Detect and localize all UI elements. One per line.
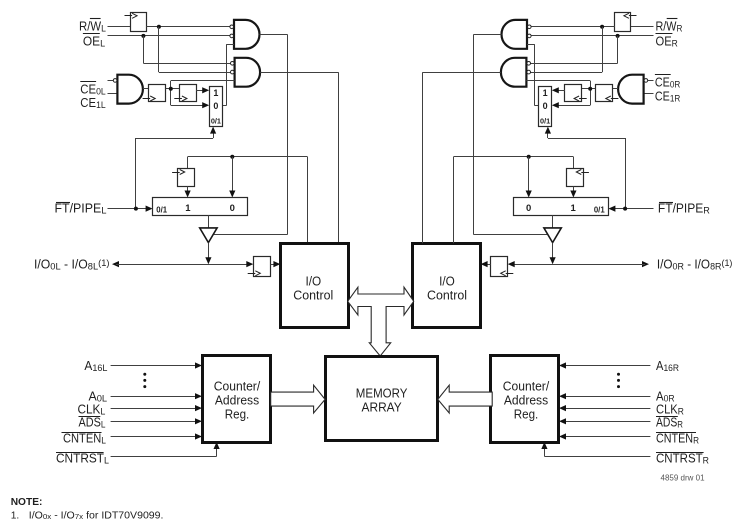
and-gate G3L (chip enable) [113,75,143,104]
node pipeline R junction [527,155,531,159]
wire B1R to I/O bus [550,243,556,265]
and-gate G1R [502,20,532,49]
wire U9 out to mux 1-input [570,186,576,197]
label CE1R [655,90,681,105]
wire flow-through to mux 0-input R [526,157,532,198]
text note 1 [11,510,164,521]
signal CNTENL [62,432,203,447]
flip-flop U4 (pipeline register) [172,169,194,187]
label CE1L [80,96,105,111]
node pipeline junction [230,155,234,159]
svg-text:FT/PIPER: FT/PIPER [658,202,710,217]
svg-text:0: 0 [543,101,548,111]
ellipsis right address [617,373,620,388]
block Counter/Address Reg left [203,356,271,443]
svg-text:I/O0x - I/O7x for IDT70V9099.: I/O0x - I/O7x for IDT70V9099. [29,510,164,521]
label OEL [83,34,105,50]
wire R/WR branch to G2R [531,27,603,73]
svg-text:FT/PIPEL: FT/PIPEL [55,202,107,217]
svg-text:R/WR: R/WR [656,20,683,35]
svg-text:CNTRSTR: CNTRSTR [656,452,709,467]
svg-text:1.: 1. [11,510,20,521]
node R/WL junction [157,25,161,29]
svg-text:Address: Address [215,392,260,407]
svg-text:R/WL: R/WL [79,20,106,35]
svg-text:Reg.: Reg. [514,407,539,422]
wire U3 out to mux 1-input [196,87,209,93]
svg-text:I/O0R - I/O8R(1): I/O0R - I/O8R(1) [657,257,733,272]
wire M2R out to buffer [552,215,554,228]
label FT/PIPEL [55,202,107,217]
wire U1 out to gate G1L [146,26,230,28]
wire G1L output to buffer enable [214,34,288,234]
svg-text:0/1: 0/1 [594,205,606,214]
svg-text:Counter/: Counter/ [503,378,550,393]
ellipsis left address [143,373,146,388]
svg-text:0: 0 [213,101,218,111]
svg-text:ARRAY: ARRAY [362,400,403,415]
wire G2R output to I/O control [422,72,500,243]
wire U7 to U8 [581,88,595,90]
svg-text:A16L: A16L [84,359,107,374]
svg-text:Control: Control [427,287,467,302]
wire G2R enable input [526,81,590,106]
node FT/PIPEL junction [134,207,138,211]
wire G1R output to buffer enable [474,34,548,234]
wire CE0L stub [108,80,114,82]
signal CNTRSTR [541,442,709,467]
wire G2L enable input [171,81,235,106]
wire B1L to I/O bus [205,243,211,265]
svg-text:4859 drw 01: 4859 drw 01 [661,474,706,483]
text drawing number [661,474,706,483]
svg-text:CNTENL: CNTENL [63,432,106,447]
signal A16R [559,359,679,374]
label R/WR [656,19,683,35]
label FT/PIPER [658,202,710,217]
svg-text:1: 1 [185,203,191,214]
block Memory Array [326,357,438,441]
flip-flop U8 (CE register 2) [565,85,587,102]
buffer B1R (output driver) [544,228,561,243]
wire G1L enable input [223,44,234,105]
svg-text:1: 1 [543,88,548,98]
wire FT/PIPER to mux M2R [608,206,653,212]
and-gate G2R [501,58,531,87]
wire I/O data to pipeline [188,157,308,244]
flip-flop U10 (input register) [491,257,514,277]
and-gate G2L [231,58,261,87]
bus arrow counter left to memory [271,385,325,413]
and-gate G1L [230,20,260,49]
wire I/O bus L [112,261,253,267]
svg-text:Counter/: Counter/ [214,378,261,393]
wire OER to gate G1R [531,35,654,37]
flip-flop U6 (R/WR register) [615,13,637,32]
signal CNTENR [559,432,699,447]
wire U2 to U3 [166,88,180,90]
wire I/O bus R [508,261,649,267]
svg-text:OEL: OEL [83,35,105,50]
signal A16L [84,359,202,374]
label I/O0L - I/O8L [34,257,110,272]
mux M2R (FT/PIPE select) [514,198,609,216]
signal A0R [559,389,675,404]
svg-text:ADSL: ADSL [79,416,106,431]
wire OEL branch to G2L [143,36,230,64]
wire U5 to I/O control [270,261,280,267]
wire U6 out to gate G1R [531,26,615,28]
mux M2L (FT/PIPE select) [153,198,248,216]
node CER junction [588,87,592,91]
svg-text:Reg.: Reg. [225,407,250,422]
flip-flop U9 (pipeline register) [567,169,589,187]
svg-text:CE1R: CE1R [655,90,681,105]
wire M1R select from FT/PIPER [545,127,626,209]
svg-text:Control: Control [293,287,333,302]
bus arrow I/O controls to memory array [348,287,414,356]
mux M1L (CE path select) [210,87,223,127]
svg-text:ADSR: ADSR [656,416,683,431]
wire M1L select from FT/PIPEL [136,127,217,209]
label CE0L [80,82,105,98]
block Counter/Address Reg right [491,356,559,443]
wire M2L out to buffer [208,215,210,228]
flip-flop U5 (input register) [248,257,271,277]
signal ADSL [79,416,203,431]
svg-text:I/O0L - I/O8L(1): I/O0L - I/O8L(1) [34,257,110,272]
svg-text:A16R: A16R [656,359,679,374]
bus arrow counter right to memory [438,385,492,413]
wire CER flow-through to mux 0-input [552,102,590,108]
svg-text:Address: Address [504,392,549,407]
signal ADSR [559,416,683,431]
svg-text:CNTRSTL: CNTRSTL [56,452,109,467]
wire FT/PIPEL to mux M2L [108,206,153,212]
signal A0L [89,389,203,404]
wire CE1L stub [108,93,118,95]
svg-text:MEMORY: MEMORY [356,385,408,400]
wire OER branch to G2R [531,36,618,64]
node R/WR junction [600,25,604,29]
wire G2L output to I/O control [260,72,338,243]
svg-text:1: 1 [213,88,218,98]
wire U4 out to mux 1-input [185,186,191,197]
label OER [656,34,678,50]
svg-text:1: 1 [570,203,576,214]
flip-flop U3 (CE register 2) [174,85,196,102]
text NOTE heading [11,497,43,508]
wire flow-through to mux 0-input [229,157,235,198]
label CE0R [655,75,681,91]
mux M1R (CE path select) [539,87,552,127]
label I/O0R - I/O8R [657,257,733,272]
svg-text:CNTENR: CNTENR [656,432,699,447]
wire CE1R stub [644,93,654,95]
svg-text:0: 0 [526,203,531,214]
wire G3R out [613,88,618,90]
svg-text:CE1L: CE1L [80,96,105,111]
label R/WL [79,19,106,35]
svg-text:I/O: I/O [439,273,455,288]
node FT/PIPER junction [623,207,627,211]
signal CLKL [78,402,203,417]
svg-text:0/1: 0/1 [156,205,168,214]
wire R/WL to register [108,26,131,28]
wire G1R enable input [527,44,538,105]
signal CLKR [559,402,684,417]
wire CE0R stub [648,80,654,82]
wire U10 to I/O control [481,261,491,267]
flip-flop U7 (CE register 1) [596,85,619,102]
block I/O Control left [281,244,349,328]
and-gate G3R (chip enable) [618,75,648,104]
wire OEL to gate G1L [108,35,231,37]
signal CNTRSTL [56,442,220,467]
svg-text:I/O: I/O [305,273,321,288]
buffer B1L (output driver) [200,228,217,243]
wire R/WR to register [631,26,654,28]
svg-text:0: 0 [230,203,235,214]
wire G3L out [143,88,148,90]
wire CE flow-through to mux 0-input [171,102,209,108]
svg-text:0/1: 0/1 [540,116,550,125]
block I/O Control right [413,244,481,328]
svg-text:OER: OER [656,35,678,50]
node OER junction [616,34,620,38]
node OEL junction [141,34,145,38]
wire I/O data to pipeline R [454,157,574,244]
flip-flop U2 (CE register 1) [143,85,166,102]
svg-text:CE0R: CE0R [655,75,681,90]
flip-flop U1 (R/WL register) [125,13,147,32]
wire R/WL branch to G2L [159,27,231,73]
svg-text:0/1: 0/1 [211,116,221,125]
svg-text:NOTE:: NOTE: [11,497,43,508]
node CE junction [169,87,173,91]
wire U8 out to mux 1-input [552,87,565,93]
